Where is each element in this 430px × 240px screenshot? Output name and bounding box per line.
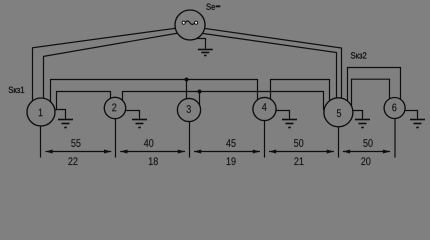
- value 50: [294, 139, 303, 147]
- wire: lower bus segment node1 to node2: [57, 92, 111, 111]
- value 40: [144, 139, 153, 147]
- label Se=: [206, 4, 215, 10]
- label 2: [112, 104, 116, 112]
- label 3: [187, 105, 191, 113]
- node circle 1: [27, 98, 55, 126]
- wire: node2 to ground: [112, 111, 140, 119]
- wire: tap from lower bus down to node 3: [199, 92, 201, 107]
- node circle 3: [177, 98, 200, 121]
- node circle 2: [104, 97, 125, 118]
- source circle Se: [175, 10, 205, 40]
- dimension arrow 1-2: [46, 150, 112, 154]
- value 22: [68, 157, 77, 165]
- value 20: [361, 157, 370, 165]
- label 4: [262, 103, 267, 111]
- wire: extension line below node 6: [394, 108, 396, 158]
- value 18: [149, 157, 158, 165]
- label Skz1: [9, 87, 24, 93]
- wire: right outer line from source to corner, down to node 5: [190, 26, 342, 102]
- label 5: [337, 109, 341, 117]
- dimension arrow 3-4: [194, 150, 260, 154]
- ground at node 1: [58, 120, 73, 128]
- wire: extension line below node 3: [189, 110, 191, 158]
- value 21: [294, 157, 303, 165]
- node circle 4: [253, 97, 276, 120]
- label 1: [39, 109, 43, 117]
- dimension arrow 4-5: [269, 150, 334, 154]
- ground at node 4: [282, 120, 297, 128]
- ground at node 5: [355, 120, 370, 128]
- wire: tap from upper bus down to node 3: [186, 80, 188, 103]
- wire: source to ground jog: [194, 39, 206, 49]
- wire: inner loop node5 to node6: [352, 79, 390, 108]
- wire: left inner line from source to corner, down to node 1: [44, 31, 191, 102]
- label Skz2: [351, 52, 366, 58]
- value 45: [226, 139, 235, 147]
- node circle 6: [384, 98, 405, 119]
- source terminal dot left: [182, 21, 185, 24]
- sine wave inside source: [185, 21, 194, 25]
- wire: extension line below node 4: [264, 109, 266, 158]
- label 6: [392, 104, 396, 112]
- wire: extension line below node 2: [115, 108, 117, 158]
- value 55: [71, 139, 80, 147]
- wire: node4 to ground: [262, 111, 290, 119]
- node circle 5: [324, 98, 353, 127]
- wire: extension line below node 5: [338, 112, 340, 158]
- wire: right inner line from source to corner, down to node 5: [190, 32, 337, 102]
- ground at node 2: [132, 120, 147, 128]
- dimension arrow 5-6: [343, 150, 390, 154]
- dimension arrow 2-3: [120, 150, 185, 154]
- wire: upper bus segment node4 to node5: [271, 80, 330, 105]
- wire: node6 to ground: [400, 111, 418, 119]
- wire: left outer line from source to corner, down to node 1: [33, 26, 191, 104]
- ground below source: [198, 50, 213, 56]
- wire: lower bus segment node2 to node5: [123, 92, 324, 111]
- value 50 (5-6): [363, 139, 372, 147]
- source terminal dot right: [195, 21, 198, 24]
- wire: node5 to ground: [348, 111, 363, 119]
- wire: extension line below node 1: [40, 112, 42, 158]
- wire: node1 to ground: [50, 110, 66, 119]
- wire: outer loop node5 to node6: [348, 68, 401, 104]
- wire: upper bus segment node1 to node4: [51, 80, 258, 105]
- value 19: [227, 157, 236, 165]
- junction dot on lower bus at node 3 tap: [198, 90, 202, 94]
- ground at node 6: [410, 120, 425, 128]
- junction dot on upper bus at node 3 tap: [185, 78, 189, 82]
